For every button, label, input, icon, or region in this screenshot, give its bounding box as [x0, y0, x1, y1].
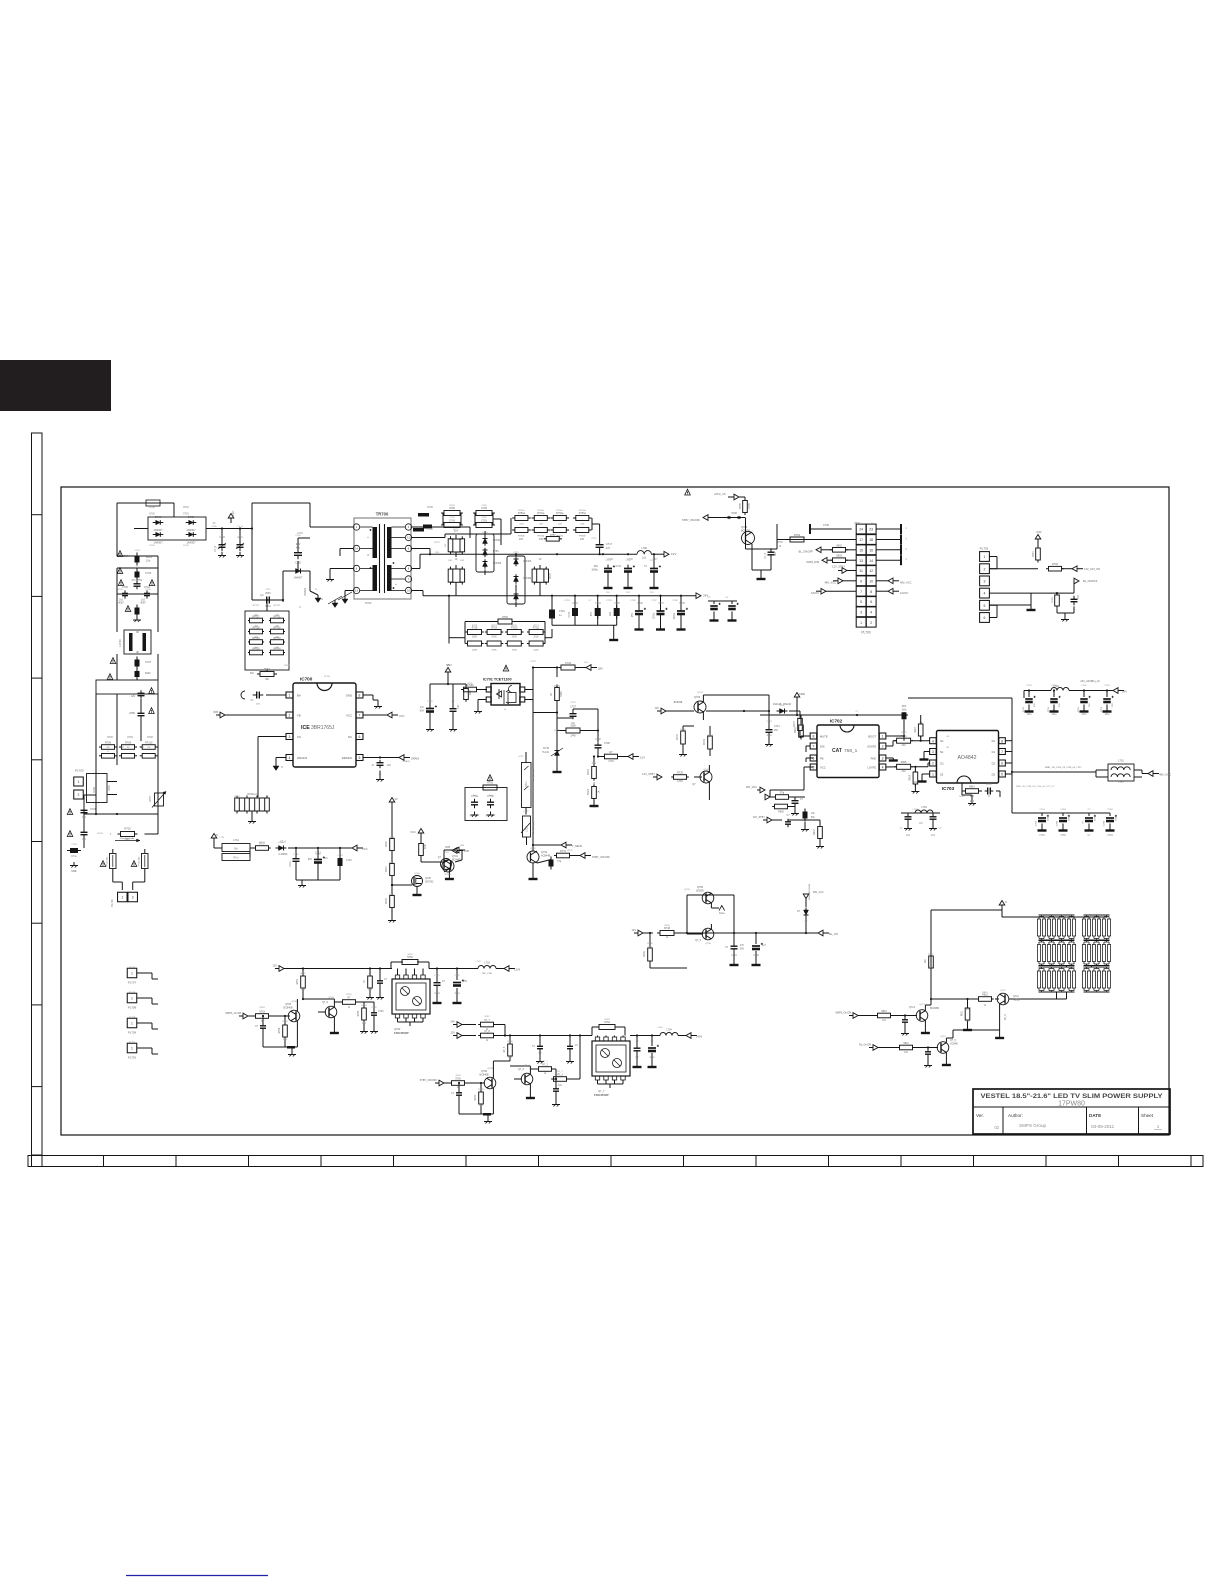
- svg-text:25V: 25V: [606, 592, 610, 594]
- svg-text:Q713: Q713: [909, 1006, 916, 1009]
- svg-text:PWM_DIM: PWM_DIM: [806, 560, 819, 564]
- flag 12V5 out: [504, 966, 509, 972]
- svg-text:1N4148/1SS244: 1N4148/1SS244: [809, 883, 811, 900]
- svg-text:NC517: NC517: [1013, 999, 1021, 1002]
- wire q711 collector: [493, 1060, 510, 1062]
- svg-text:Ver.: Ver.: [976, 1113, 984, 1118]
- svg-text:R721: R721: [533, 625, 539, 627]
- svg-text:+: +: [395, 582, 397, 586]
- PFC up arrow flag: [230, 518, 232, 523]
- svg-text:1K: 1K: [593, 783, 596, 785]
- ecap blockA out: [456, 969, 458, 981]
- resistor R810: [979, 997, 992, 1002]
- svg-text:R737: R737: [794, 721, 796, 727]
- capacitor C7ic2: [803, 812, 808, 819]
- svg-text:C733: C733: [564, 600, 570, 602]
- svg-text:R7fb: R7fb: [425, 843, 427, 849]
- svg-text:758_1: 758_1: [844, 748, 858, 754]
- flag PWM_DIM row4: [822, 557, 827, 563]
- flag 24V tr: [1113, 688, 1118, 694]
- svg-text:C713: C713: [774, 725, 780, 728]
- svg-text:C719: C719: [731, 955, 737, 957]
- capacitor C7ic: [792, 800, 799, 802]
- svg-text:BL_ON/OFF: BL_ON/OFF: [1083, 579, 1098, 583]
- svg-text:C727: C727: [523, 811, 529, 813]
- svg-text:R04: R04: [902, 705, 907, 708]
- svg-text:400V: 400V: [140, 602, 146, 605]
- svg-text:R706: R706: [107, 737, 113, 739]
- svg-text:C710: C710: [293, 854, 299, 856]
- svg-text:C717: C717: [591, 538, 597, 540]
- svg-text:R720: R720: [386, 841, 388, 847]
- svg-text:BC856: BC856: [696, 890, 704, 893]
- sense resistors R703: [235, 798, 240, 811]
- resistor R7opto: [464, 687, 477, 692]
- ground sense: [251, 818, 253, 822]
- svg-text:R760: R760: [478, 1089, 484, 1091]
- svg-text:Author:: Author:: [1008, 1113, 1023, 1118]
- svg-text:UF5400: UF5400: [493, 563, 502, 565]
- wire rail y814: [84, 813, 158, 815]
- svg-text:1N4007: 1N4007: [153, 541, 163, 545]
- ground TR700 pin13: [344, 596, 346, 599]
- diode D704: [296, 569, 301, 574]
- svg-text:1: 1: [882, 735, 884, 739]
- transistor Q715: [937, 1042, 949, 1054]
- svg-text:12: 12: [869, 569, 873, 573]
- flag VIN top: [447, 672, 449, 677]
- svg-text:DRAIN: DRAIN: [411, 757, 419, 761]
- svg-text:205N: 205N: [129, 712, 135, 715]
- net tie bar C706: [809, 524, 811, 534]
- svg-text:2: 2: [932, 762, 934, 766]
- flag 24V5 out: [686, 1033, 691, 1039]
- svg-text:12VCC: 12VCC: [811, 591, 819, 595]
- net ties right rows: [876, 528, 901, 530]
- svg-text:AO4842: AO4842: [957, 755, 976, 761]
- svg-text:Q701: Q701: [452, 855, 459, 858]
- svg-text:DIS: DIS: [820, 744, 825, 748]
- right loop wires: [251, 503, 253, 529]
- svg-text:C7xx: C7xx: [71, 855, 77, 858]
- svg-text:6: 6: [870, 600, 872, 604]
- capacitor C713: [766, 729, 773, 731]
- svg-text:R703: R703: [234, 796, 240, 798]
- capacitor C701: [67, 809, 73, 815]
- wire q710 base: [303, 998, 334, 1000]
- svg-text:R912: R912: [814, 829, 816, 835]
- capacitor C7a2: [260, 1025, 266, 1027]
- capacitor C708a: [219, 544, 226, 546]
- svg-text:PL707: PL707: [128, 981, 137, 985]
- svg-text:S708: S708: [731, 512, 737, 515]
- wire q705 box: [687, 894, 734, 896]
- black header bar: [0, 360, 111, 411]
- svg-text:48V_VCC: 48V_VCC: [1159, 773, 1171, 777]
- svg-text:24V: 24V: [450, 1020, 455, 1024]
- svg-text:L704: L704: [666, 1029, 672, 1032]
- svg-text:C754: C754: [1036, 820, 1038, 826]
- capacitor C703a: [135, 608, 140, 615]
- svg-text:200K: 200K: [533, 637, 539, 639]
- wire 24V to caps: [1023, 691, 1025, 699]
- transistor Q716: [521, 1073, 533, 1085]
- wire q716 base: [510, 1065, 530, 1067]
- capacitor C7bank1: [902, 1019, 908, 1021]
- wire opto right: [525, 689, 533, 691]
- flag T_SENS: [533, 844, 561, 846]
- wire bridge output: [206, 528, 252, 530]
- flag 48V_VCC bl: [803, 894, 809, 899]
- svg-text:1M: 1M: [275, 626, 278, 628]
- resistor chain R720: [391, 807, 393, 838]
- svg-text:R749: R749: [644, 951, 646, 957]
- svg-text:C715: C715: [337, 855, 343, 857]
- diode D7bl: [805, 917, 807, 933]
- svg-text:R784: R784: [777, 542, 783, 544]
- flag STBY blockB: [439, 1080, 444, 1086]
- svg-text:12V5: 12V5: [514, 968, 521, 972]
- svg-text:R720: R720: [389, 837, 395, 839]
- svg-text:SMPS_On/Off: SMPS_On/Off: [225, 1012, 241, 1015]
- svg-text:R752a: R752a: [556, 512, 564, 515]
- resistor R723: [592, 767, 597, 779]
- svg-text:R722: R722: [389, 894, 395, 896]
- svg-text:C761: C761: [481, 517, 487, 519]
- svg-text:C700: C700: [122, 586, 129, 589]
- svg-text:C794: C794: [1104, 820, 1106, 826]
- svg-text:R750c: R750c: [557, 510, 564, 512]
- varistor R707: [155, 793, 164, 806]
- svg-text:600n: 600n: [145, 671, 151, 675]
- svg-text:R750a: R750a: [518, 512, 526, 515]
- svg-text:25V: 25V: [1059, 703, 1061, 707]
- IC702 CAT758: [817, 725, 879, 778]
- svg-text:7: 7: [359, 714, 361, 718]
- svg-text:18: 18: [869, 538, 873, 542]
- svg-text:11: 11: [859, 569, 863, 573]
- svg-text:2N7002: 2N7002: [425, 881, 434, 884]
- svg-text:5608: 5608: [561, 691, 563, 697]
- svg-text:LGATE: LGATE: [867, 765, 876, 769]
- svg-text:C704: C704: [145, 589, 151, 591]
- svg-text:63V: 63V: [1095, 817, 1097, 821]
- transistor Q711: [484, 1077, 496, 1089]
- electrolytic C731: [624, 568, 632, 570]
- wire pin4 gnd: [276, 757, 286, 759]
- svg-text:LF700: LF700: [118, 639, 122, 647]
- svg-text:R810: R810: [982, 992, 988, 994]
- svg-text:20R: 20R: [519, 524, 523, 526]
- svg-text:48V_VCC: 48V_VCC: [900, 581, 912, 585]
- flag 24V PL703: [1037, 539, 1039, 544]
- flag BL_ONOFF PL703: [1074, 578, 1079, 584]
- svg-text:S765: S765: [455, 1075, 461, 1077]
- svg-text:UC84B: UC84B: [950, 1043, 958, 1046]
- optocoupler IC701 TCET1100: [491, 684, 520, 706]
- svg-text:Q708: Q708: [291, 1001, 297, 1003]
- svg-text:200K: 200K: [512, 649, 518, 651]
- svg-text:1000u: 1000u: [654, 612, 656, 619]
- svg-text:8R2: 8R2: [125, 839, 130, 841]
- svg-text:R77: R77: [454, 531, 459, 533]
- svg-text:Q709: Q709: [328, 997, 334, 999]
- mosfet pack Q707 FDS4559: [392, 979, 430, 1014]
- bead + cap pin1: [241, 691, 245, 699]
- svg-text:C734: C734: [595, 603, 601, 605]
- svg-text:23: 23: [869, 528, 873, 532]
- svg-text:C711: C711: [265, 605, 271, 608]
- svg-text:R708: R708: [147, 737, 153, 739]
- svg-text:C708: C708: [211, 526, 217, 528]
- resistor R7vin: [464, 689, 469, 700]
- svg-text:C733: C733: [572, 603, 578, 605]
- svg-text:R725: R725: [554, 686, 560, 688]
- svg-text:24V5: 24V5: [696, 1035, 703, 1039]
- svg-text:D703: D703: [183, 545, 189, 547]
- svg-text:R7_1: R7_1: [542, 1064, 548, 1066]
- wire ic703 s1: [924, 751, 930, 753]
- svg-text:12V_STBY: 12V_STBY: [832, 565, 845, 569]
- flag 12V_STBY2: [767, 817, 772, 823]
- svg-text:C703: C703: [71, 844, 77, 846]
- resistor grid R708-R713: [102, 745, 115, 750]
- svg-text:Q715: Q715: [940, 1036, 946, 1038]
- capacitor 600n: [135, 671, 140, 677]
- flag VCC fb: [420, 833, 422, 838]
- svg-text:1M: 1M: [254, 637, 257, 639]
- svg-text:Q705: Q705: [684, 889, 690, 891]
- resistor R811: [965, 1008, 970, 1020]
- svg-text:VFB: VFB: [464, 850, 469, 853]
- svg-text:R784: R784: [794, 534, 801, 537]
- capacitor C702: [67, 831, 73, 837]
- flag 12V blockA: [279, 966, 284, 972]
- transistor Q709: [288, 1010, 300, 1022]
- svg-text:GND: GND: [346, 693, 352, 697]
- svg-text:R750d: R750d: [579, 510, 586, 512]
- svg-text:Q706: Q706: [705, 943, 711, 945]
- svg-text:C754: C754: [1039, 835, 1045, 837]
- caps blockB mid: [539, 1036, 541, 1045]
- svg-text:C713: C713: [766, 721, 772, 723]
- svg-text:FDS4559P: FDS4559P: [394, 1031, 409, 1035]
- svg-text:4: 4: [882, 766, 884, 770]
- Y-caps C700 C704: [116, 568, 118, 612]
- svg-text:C719: C719: [559, 610, 565, 613]
- svg-text:R907: R907: [915, 726, 917, 732]
- svg-text:56K: 56K: [250, 673, 255, 675]
- svg-text:BC846B: BC846B: [480, 1074, 489, 1077]
- flag SMPS_ONOFF blockA: [243, 1013, 248, 1019]
- resistor C761: [476, 523, 492, 528]
- svg-text:S701: S701: [108, 785, 111, 791]
- svg-text:S768: S768: [484, 1027, 490, 1029]
- svg-text:4: 4: [289, 756, 291, 760]
- flag 12V_STBY row5: [842, 568, 847, 574]
- resistor R700: [121, 832, 135, 837]
- svg-text:250V: 250V: [265, 592, 271, 595]
- svg-text:C702: C702: [565, 662, 572, 665]
- svg-text:10n: 10n: [146, 559, 151, 563]
- svg-text:1: 1: [984, 555, 986, 559]
- resistor R7g: [776, 795, 789, 800]
- svg-text:Q704: Q704: [703, 769, 709, 771]
- svg-text:C753: C753: [1101, 706, 1103, 712]
- wire stby rail: [710, 694, 769, 696]
- svg-text:2R2: 2R2: [901, 771, 906, 773]
- svg-text:220n: 220n: [237, 537, 243, 539]
- warning triangle top: [685, 489, 691, 495]
- svg-text:C702: C702: [530, 661, 536, 663]
- resistor R761v: [1036, 548, 1041, 560]
- svg-text:Q712: Q712: [1000, 990, 1006, 992]
- svg-text:1R: 1R: [539, 559, 542, 561]
- capacitor C704b: [768, 551, 775, 553]
- svg-text:R748: R748: [427, 507, 433, 509]
- resistor C760: [476, 511, 492, 516]
- svg-text:C735: C735: [606, 600, 612, 602]
- resistor R912: [818, 827, 823, 839]
- svg-text:Q702: Q702: [530, 848, 536, 850]
- wire rail y548: [412, 548, 430, 550]
- svg-text:R756: R756: [358, 1010, 360, 1016]
- flag 48V_VCC out: [1148, 771, 1153, 777]
- svg-text:R734: R734: [704, 739, 706, 745]
- svg-text:R718: R718: [472, 628, 478, 630]
- resistor R753: [256, 1014, 269, 1019]
- resistor pair RV1: [448, 539, 453, 552]
- svg-text:ICE: ICE: [301, 725, 310, 731]
- resistor R784: [790, 537, 804, 542]
- svg-text:1R: 1R: [455, 559, 458, 561]
- svg-text:2R2: 2R2: [970, 801, 975, 803]
- svg-text:S705: S705: [749, 503, 751, 509]
- svg-text:R811: R811: [962, 1010, 964, 1016]
- svg-text:20R: 20R: [460, 560, 464, 562]
- svg-text:12V: 12V: [671, 552, 676, 556]
- svg-text:S764: S764: [604, 1021, 610, 1024]
- svg-text:200K: 200K: [534, 649, 540, 651]
- svg-text:PL709: PL709: [128, 1031, 137, 1035]
- svg-text:25V: 25V: [1034, 703, 1036, 707]
- film cap bank 3: [614, 608, 620, 616]
- svg-text:BOOT: BOOT: [868, 734, 876, 738]
- svg-text:25V: 25V: [632, 613, 634, 618]
- svg-text:C757: C757: [986, 784, 992, 786]
- svg-text:R773: R773: [434, 542, 440, 544]
- svg-text:SMPS_On/Off: SMPS_On/Off: [835, 1012, 851, 1015]
- resistor R7q: [557, 853, 570, 858]
- wire pin8 gnd: [363, 694, 373, 696]
- electrolytic C705b: [426, 708, 434, 710]
- svg-text:PL709: PL709: [129, 1017, 136, 1019]
- svg-text:+: +: [367, 535, 369, 539]
- capacitor C720: [117, 568, 123, 574]
- mosfet Q700: [412, 876, 423, 887]
- svg-text:R709: R709: [127, 737, 133, 739]
- wire vin rail: [430, 683, 466, 685]
- svg-text:Sheet: Sheet: [1141, 1113, 1154, 1118]
- electrolytic C712: [317, 848, 319, 857]
- transistor Q703: [694, 701, 706, 713]
- svg-text:VFB: VFB: [213, 710, 218, 714]
- svg-text:7: 7: [812, 745, 814, 749]
- connector PL708: [127, 993, 137, 1003]
- svg-text:CAT: CAT: [832, 748, 842, 754]
- svg-text:C707: C707: [570, 702, 576, 704]
- svg-text:C716: C716: [295, 535, 301, 537]
- svg-text:3: 3: [932, 750, 934, 754]
- svg-text:2R2: 2R2: [901, 745, 906, 747]
- svg-text:R728: R728: [554, 730, 560, 732]
- svg-text:Q7_9: Q7_9: [322, 1001, 329, 1004]
- flag S mark: [213, 838, 215, 843]
- svg-text:R719: R719: [491, 628, 497, 630]
- svg-text:12V_24V(2): 12V_24V(2): [533, 822, 535, 834]
- wire divider tap: [392, 884, 412, 886]
- svg-text:BC846: BC846: [445, 874, 452, 876]
- svg-text:25V: 25V: [774, 730, 779, 732]
- flag BL_ONOFF bank: [873, 1045, 878, 1051]
- resistor R812: [878, 1013, 891, 1018]
- svg-text:100n: 100n: [901, 710, 907, 712]
- svg-text:Q708: Q708: [487, 1068, 493, 1070]
- svg-text:BC846B: BC846B: [930, 1007, 939, 1010]
- svg-text:R750b: R750b: [538, 510, 545, 512]
- svg-text:DRAIN1: DRAIN1: [297, 756, 308, 760]
- svg-text:R719: R719: [491, 625, 497, 627]
- svg-text:Q7_6: Q7_6: [524, 1065, 530, 1067]
- svg-text:1M: 1M: [275, 615, 278, 617]
- svg-text:12VCC: 12VCC: [900, 591, 908, 595]
- svg-text:100u: 100u: [1116, 815, 1118, 821]
- wire bank to Q712: [1066, 992, 1068, 999]
- svg-text:STBY_ON/OFF: STBY_ON/OFF: [592, 855, 610, 859]
- svg-text:C720: C720: [145, 571, 152, 575]
- wire row2 to R784: [777, 539, 810, 541]
- svg-text:1: 1: [860, 621, 862, 625]
- svg-text:1M: 1M: [275, 637, 278, 639]
- svg-text:25V: 25V: [591, 612, 593, 617]
- electrolytic C738: [677, 610, 685, 612]
- diode stack D760: [507, 556, 525, 604]
- svg-text:02: 02: [994, 1125, 999, 1130]
- svg-text:17PW80: 17PW80: [1058, 1101, 1085, 1108]
- capacitor C708b: [237, 544, 244, 546]
- snubber R914: [961, 784, 963, 792]
- svg-text:S2: S2: [940, 772, 944, 776]
- svg-text:200K: 200K: [512, 637, 518, 639]
- svg-text:47n 275V: 47n 275V: [132, 579, 143, 582]
- svg-text:12V: 12V: [272, 964, 277, 968]
- resistor R751: [301, 976, 306, 988]
- svg-text:8: 8: [1001, 739, 1003, 743]
- svg-text:L703: L703: [476, 961, 482, 963]
- IC700 ICE3BR1765J: [293, 683, 356, 767]
- fuse F700: [146, 500, 160, 506]
- svg-text:100R: 100R: [677, 781, 683, 783]
- inductor L702b: [1051, 688, 1069, 691]
- ground PL703: [1056, 608, 1058, 613]
- svg-text:1: 1: [121, 896, 123, 900]
- wire Q714 box: [746, 548, 778, 550]
- svg-text:RP727: RP727: [253, 605, 260, 607]
- svg-text:R7_8: R7_8: [504, 1046, 506, 1052]
- resistor bank rows: [1037, 919, 1040, 936]
- svg-text:1M: 1M: [254, 615, 257, 617]
- svg-text:1: 1: [131, 997, 133, 1001]
